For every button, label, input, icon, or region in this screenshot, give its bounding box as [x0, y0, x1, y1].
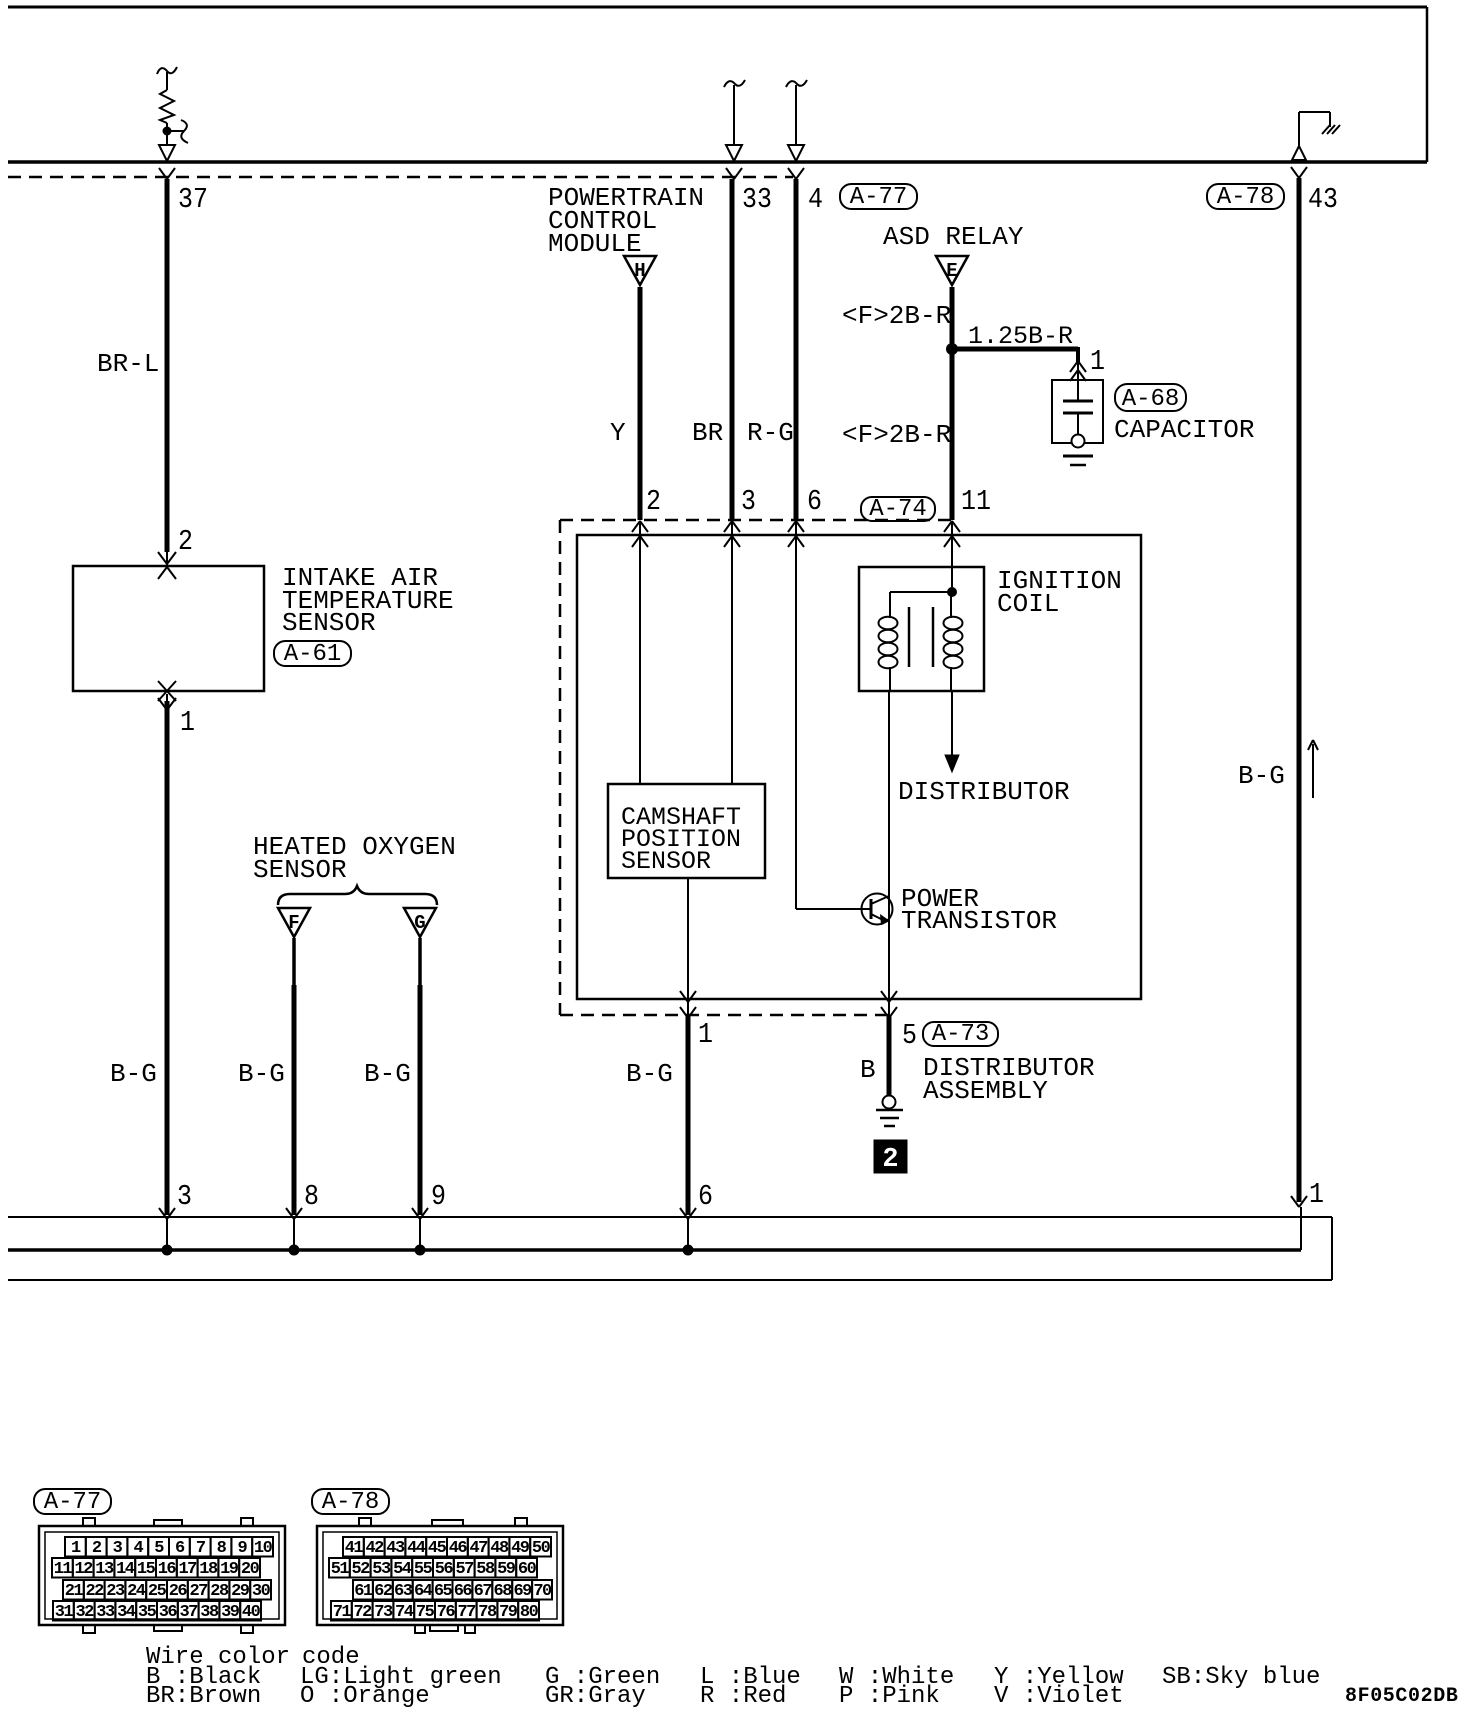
connector triangle G (heated oxygen sensor) — [404, 908, 436, 937]
svg-text:8: 8 — [217, 1539, 227, 1558]
svg-text:55: 55 — [414, 1560, 433, 1579]
svg-text:12: 12 — [74, 1560, 93, 1579]
ground distributor assembly — [883, 1096, 896, 1109]
svg-text:BR: BR — [692, 418, 723, 448]
svg-text:A-78: A-78 — [1217, 184, 1275, 211]
wire pin6 to power transistor base — [795, 521, 797, 909]
node pin 1 marks — [680, 991, 696, 1002]
junction dot coil common — [947, 587, 957, 597]
svg-text:1: 1 — [698, 1018, 713, 1051]
svg-text:1: 1 — [71, 1539, 81, 1558]
svg-text:77: 77 — [457, 1603, 476, 1622]
svg-text:72: 72 — [353, 1603, 372, 1622]
svg-text:18: 18 — [199, 1560, 218, 1579]
svg-text:BR-L: BR-L — [97, 349, 159, 379]
svg-text:P :Pink: P :Pink — [839, 1683, 940, 1710]
wire pin3 to camshaft sensor — [731, 521, 733, 784]
svg-text:38: 38 — [200, 1603, 219, 1622]
node pin 2 marks — [632, 521, 648, 532]
svg-text:61: 61 — [354, 1582, 373, 1601]
svg-text:11: 11 — [961, 485, 991, 518]
wire pin2 to camshaft sensor — [639, 521, 641, 784]
svg-text:B-G: B-G — [110, 1059, 157, 1089]
svg-text:9: 9 — [237, 1539, 247, 1558]
wire 4 R-G — [794, 179, 799, 520]
wire pin11 to ignition coil — [951, 521, 953, 592]
svg-text:A-61: A-61 — [284, 641, 342, 668]
svg-text:50: 50 — [532, 1539, 551, 1558]
svg-text:37: 37 — [178, 183, 208, 216]
wire / top bus frame (power feed box) — [8, 6, 1427, 9]
svg-text:SENSOR: SENSOR — [621, 847, 711, 876]
svg-text:E: E — [946, 260, 957, 282]
svg-text:74: 74 — [395, 1603, 414, 1622]
svg-text:59: 59 — [497, 1560, 516, 1579]
svg-text:46: 46 — [449, 1539, 468, 1558]
label connector A-77 top — [840, 184, 917, 209]
svg-text:B-G: B-G — [626, 1059, 673, 1089]
svg-text:GR:Gray: GR:Gray — [545, 1683, 646, 1710]
ignition coil primary winding — [889, 592, 891, 618]
ignition coil secondary winding — [950, 592, 952, 618]
resistor R (pull-up inside module) — [157, 67, 177, 74]
svg-text:6: 6 — [175, 1539, 185, 1558]
svg-text:39: 39 — [221, 1603, 240, 1622]
brace over oxygen sensor triangles — [278, 886, 437, 905]
svg-text:43: 43 — [1308, 183, 1338, 216]
wire ground bus upper line — [8, 1216, 1332, 1218]
svg-text:33: 33 — [96, 1603, 115, 1622]
wire 33 BR — [730, 179, 735, 520]
node pin 9 mark bottom — [412, 1208, 428, 1219]
svg-text:3: 3 — [113, 1539, 123, 1558]
svg-text:15: 15 — [137, 1560, 156, 1579]
wire camshaft sensor output — [687, 878, 689, 1015]
junction dot bus 4 — [683, 1245, 694, 1256]
node pin 3 marks — [724, 521, 740, 532]
svg-text:69: 69 — [513, 1582, 532, 1601]
label connector A-68 — [1115, 384, 1186, 411]
svg-text:B-G: B-G — [238, 1059, 285, 1089]
ground below capacitor — [1063, 455, 1093, 458]
arrow to distributor — [945, 755, 959, 772]
svg-text:79: 79 — [499, 1603, 518, 1622]
svg-text:57: 57 — [455, 1560, 474, 1579]
svg-text:COIL: COIL — [997, 589, 1059, 619]
label connector A-74 — [861, 497, 935, 521]
svg-text:62: 62 — [374, 1582, 393, 1601]
svg-text:2: 2 — [92, 1539, 102, 1558]
svg-text:75: 75 — [416, 1603, 435, 1622]
wire B-G from triangle G — [418, 938, 422, 985]
junction dot bus 1 — [162, 1245, 173, 1256]
wire B-G from intake sensor to ground bus — [166, 694, 168, 701]
svg-text:1: 1 — [180, 706, 195, 739]
svg-text:H: H — [634, 260, 645, 282]
svg-text:54: 54 — [393, 1560, 412, 1579]
svg-text:53: 53 — [372, 1560, 391, 1579]
svg-text:68: 68 — [494, 1582, 513, 1601]
svg-text:R :Red: R :Red — [700, 1683, 786, 1710]
node pin 33 connector mark — [726, 168, 742, 179]
svg-text:73: 73 — [374, 1603, 393, 1622]
svg-text:76: 76 — [437, 1603, 456, 1622]
svg-text:B-G: B-G — [1238, 761, 1285, 791]
ground reference numeral 2 black box — [874, 1140, 907, 1173]
svg-text:MODULE: MODULE — [548, 229, 642, 259]
svg-text:14: 14 — [116, 1560, 135, 1579]
svg-text:6: 6 — [807, 485, 822, 518]
svg-text:56: 56 — [435, 1560, 454, 1579]
svg-text:49: 49 — [511, 1539, 530, 1558]
svg-text:22: 22 — [85, 1582, 104, 1601]
connector triangle E (ASD relay) — [936, 256, 968, 285]
svg-text:30: 30 — [252, 1582, 271, 1601]
svg-text:B-G: B-G — [364, 1059, 411, 1089]
dashed box distributor assembly connector A-74 boundary — [560, 519, 952, 522]
wire / PCM connector dashed boundary line — [8, 176, 793, 179]
connector A-77 pinout diagram — [34, 1489, 111, 1514]
wire B-G from camshaft pin 1 to ground bus — [686, 1015, 691, 1215]
svg-text:42: 42 — [365, 1539, 384, 1558]
svg-text:R-G: R-G — [747, 418, 794, 448]
svg-text:A-77: A-77 — [850, 184, 908, 211]
connector arrow into bus (pin 37 feed) — [159, 145, 175, 161]
svg-text:20: 20 — [241, 1560, 260, 1579]
svg-text:2: 2 — [178, 525, 193, 558]
svg-text:3: 3 — [177, 1180, 192, 1213]
svg-text:32: 32 — [75, 1603, 94, 1622]
svg-text:8F05C02DB: 8F05C02DB — [1345, 1685, 1458, 1708]
arrow up current direction — [1312, 744, 1314, 798]
svg-text:ASSEMBLY: ASSEMBLY — [923, 1076, 1048, 1106]
svg-text:43: 43 — [386, 1539, 405, 1558]
svg-text:7: 7 — [196, 1539, 206, 1558]
wire 37 BR-L down to intake sensor — [165, 179, 170, 552]
junction dot bus 3 — [415, 1245, 426, 1256]
box distributor assembly internal outline — [577, 535, 1141, 999]
svg-text:A-78: A-78 — [322, 1489, 380, 1516]
svg-text:G: G — [414, 912, 425, 934]
svg-text:1: 1 — [1090, 345, 1105, 378]
svg-text:58: 58 — [476, 1560, 495, 1579]
svg-text:36: 36 — [159, 1603, 178, 1622]
svg-text:41: 41 — [345, 1539, 364, 1558]
node pin 11 marks — [944, 521, 960, 532]
svg-text:TRANSISTOR: TRANSISTOR — [901, 906, 1057, 936]
svg-text:66: 66 — [454, 1582, 473, 1601]
box intake air temperature sensor — [73, 566, 264, 691]
node pin 4 connector mark — [788, 168, 804, 179]
svg-text:29: 29 — [231, 1582, 250, 1601]
svg-text:78: 78 — [478, 1603, 497, 1622]
label connector A-61 — [274, 641, 351, 666]
svg-text:2: 2 — [646, 485, 661, 518]
box ignition coil outline — [859, 567, 984, 691]
wire ground bus main line — [8, 1248, 1301, 1252]
wire ground bus lower line — [8, 1279, 1332, 1281]
svg-text:A-77: A-77 — [44, 1489, 102, 1516]
svg-text:13: 13 — [95, 1560, 114, 1579]
wire ground bus riser to pin 1 — [1300, 1207, 1302, 1250]
svg-text:17: 17 — [178, 1560, 197, 1579]
wire ground bus right cap — [1331, 1217, 1333, 1280]
svg-text:37: 37 — [179, 1603, 198, 1622]
svg-text:<F>2B-R: <F>2B-R — [842, 420, 951, 450]
connector A-78 pinout diagram — [312, 1489, 389, 1514]
svg-text:6: 6 — [698, 1180, 713, 1213]
node pin 6 mark bottom — [680, 1208, 696, 1219]
svg-text:11: 11 — [54, 1560, 73, 1579]
svg-text:4: 4 — [808, 183, 823, 216]
svg-text:3: 3 — [741, 485, 756, 518]
junction dot at resistor output — [163, 127, 172, 136]
svg-text:51: 51 — [331, 1560, 350, 1579]
junction dot bus 2 — [289, 1245, 300, 1256]
svg-text:1: 1 — [1309, 1178, 1324, 1211]
svg-text:71: 71 — [333, 1603, 352, 1622]
box camshaft position sensor — [608, 784, 765, 878]
svg-text:40: 40 — [242, 1603, 261, 1622]
wire B-G from triangle F — [292, 938, 296, 985]
wire (F)2B-R from ASD relay — [950, 287, 955, 520]
transistor Q power transistor — [862, 894, 893, 925]
wire coil primary through transistor to pin 5 — [888, 691, 890, 1015]
svg-text:V :Violet: V :Violet — [994, 1683, 1124, 1710]
svg-text:SENSOR: SENSOR — [253, 855, 347, 885]
svg-text:63: 63 — [394, 1582, 413, 1601]
svg-text:70: 70 — [533, 1582, 552, 1601]
svg-text:44: 44 — [407, 1539, 426, 1558]
node sensor pin 1 crossing mark — [158, 681, 176, 701]
svg-text:A-74: A-74 — [869, 496, 927, 523]
svg-text:24: 24 — [127, 1582, 146, 1601]
svg-text:35: 35 — [138, 1603, 157, 1622]
wire / drop from module to pin 33 — [724, 80, 745, 87]
label connector A-78 top — [1207, 184, 1284, 209]
svg-text:5: 5 — [902, 1019, 917, 1052]
wire B-G pin 43 down right side — [1297, 178, 1302, 1202]
svg-text:2: 2 — [882, 1145, 898, 1175]
node sensor pin 2 crossing mark — [158, 552, 176, 564]
svg-text:8: 8 — [304, 1180, 319, 1213]
svg-text:5: 5 — [154, 1539, 164, 1558]
svg-text:21: 21 — [65, 1582, 84, 1601]
svg-text:28: 28 — [210, 1582, 229, 1601]
svg-text:A-73: A-73 — [932, 1021, 990, 1048]
connector triangle H (PCM) — [624, 256, 656, 285]
svg-text:67: 67 — [474, 1582, 493, 1601]
node pin 8 mark bottom — [286, 1208, 302, 1219]
wire coil secondary to distributor — [951, 691, 953, 757]
svg-text:Y: Y — [610, 418, 626, 448]
svg-text:34: 34 — [117, 1603, 136, 1622]
svg-text:<F>2B-R: <F>2B-R — [842, 301, 951, 331]
svg-text:23: 23 — [106, 1582, 125, 1601]
node pin 5 marks — [881, 991, 897, 1002]
svg-text:DISTRIBUTOR: DISTRIBUTOR — [898, 777, 1070, 807]
ground (chassis) symbol top right — [1292, 146, 1306, 160]
capacitor C (A-68) — [1052, 380, 1103, 443]
svg-text:52: 52 — [351, 1560, 370, 1579]
wire 1.25B-R to capacitor — [949, 347, 1078, 352]
svg-text:SENSOR: SENSOR — [282, 608, 376, 638]
svg-text:1.25B-R: 1.25B-R — [968, 322, 1073, 351]
node pin 1 right mark — [1291, 1196, 1307, 1207]
svg-text:10: 10 — [254, 1539, 273, 1558]
svg-text:ASD RELAY: ASD RELAY — [883, 222, 1024, 252]
svg-text:33: 33 — [742, 183, 772, 216]
connector triangle F (heated oxygen sensor) — [278, 908, 310, 937]
svg-text:4: 4 — [133, 1539, 143, 1558]
svg-text:26: 26 — [169, 1582, 188, 1601]
junction dot on 2B-R wire — [946, 343, 958, 355]
svg-text:16: 16 — [158, 1560, 177, 1579]
svg-text:SB:Sky blue: SB:Sky blue — [1162, 1664, 1320, 1691]
svg-text:A-68: A-68 — [1122, 386, 1180, 413]
svg-text:48: 48 — [490, 1539, 509, 1558]
svg-text:O :Orange: O :Orange — [300, 1683, 430, 1710]
svg-text:B: B — [860, 1055, 876, 1085]
svg-text:27: 27 — [189, 1582, 208, 1601]
node pin 43 connector mark — [1291, 167, 1307, 178]
svg-text:80: 80 — [520, 1603, 539, 1622]
svg-text:19: 19 — [220, 1560, 239, 1579]
svg-text:45: 45 — [428, 1539, 447, 1558]
wire / stub branch with break symbol — [167, 130, 184, 132]
svg-text:CAPACITOR: CAPACITOR — [1114, 415, 1254, 445]
wire / drop from module to pin 4 — [786, 80, 807, 87]
wire Y from PCM triangle H — [638, 287, 643, 520]
node pin 6 marks — [788, 521, 804, 532]
ignition coil core — [908, 607, 911, 667]
node pin 37 connector mark — [159, 168, 175, 179]
node pin 3 mark bottom — [159, 1208, 175, 1219]
svg-text:BR:Brown: BR:Brown — [146, 1683, 261, 1710]
svg-text:25: 25 — [148, 1582, 167, 1601]
svg-text:64: 64 — [414, 1582, 433, 1601]
svg-text:65: 65 — [434, 1582, 453, 1601]
svg-text:9: 9 — [431, 1180, 446, 1213]
svg-text:F: F — [288, 912, 299, 934]
svg-text:47: 47 — [469, 1539, 488, 1558]
wire B from pin 5 to ground — [887, 1015, 892, 1096]
svg-text:60: 60 — [518, 1560, 537, 1579]
label connector A-73 — [923, 1022, 998, 1046]
node capacitor pin 1 double chevron — [1070, 361, 1086, 372]
svg-text:31: 31 — [55, 1603, 74, 1622]
wire coil common bar — [890, 591, 952, 593]
